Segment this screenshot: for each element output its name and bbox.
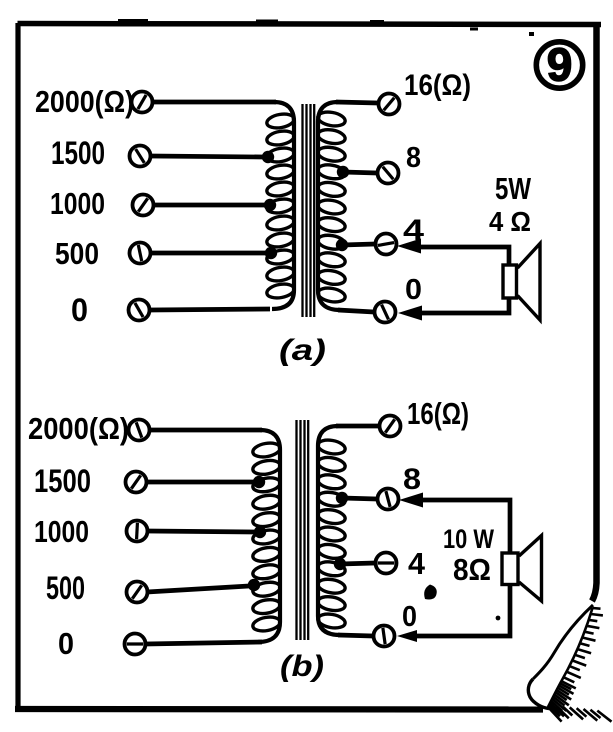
svg-text:2000(Ω): 2000(Ω) — [28, 411, 129, 446]
svg-text:(b): (b) — [280, 650, 324, 683]
wire 2000 terminal to T2 primary top (b) — [149, 428, 262, 433]
terminal 0 ohm secondary (a) — [375, 302, 396, 323]
ink speck near speaker (b) — [496, 616, 501, 621]
svg-text:16(Ω): 16(Ω) — [404, 69, 471, 102]
label 5W speaker rating (a) — [495, 171, 532, 206]
junction dot 4 ohm tap on T2 secondary (b) — [334, 558, 346, 570]
svg-text:10 W: 10 W — [443, 524, 494, 554]
wire 0 ohm terminal to speaker LS1 minus lead (a) — [420, 297, 509, 313]
label 16(Ω) secondary tap (b) — [407, 396, 469, 431]
terminal 8 ohm (a) — [378, 163, 399, 184]
terminal 2000 ohm tap (a) — [132, 92, 153, 113]
wire 1500 terminal to T1 primary tap (a) — [150, 156, 264, 157]
terminal 1500 ohm tap (b) — [126, 472, 147, 493]
svg-text:1500: 1500 — [51, 135, 105, 171]
arrowhead at 8 ohm terminal (b) — [399, 493, 423, 508]
speaker LS2 10W 8 ohm (b) — [502, 536, 542, 602]
speaker LS1 5W 4 ohm (a) — [503, 244, 540, 321]
wire 500 terminal to T1 primary tap (a) — [150, 251, 267, 256]
junction dot 500 tap on T2 primary (b) — [248, 579, 260, 591]
label (b) sub-figure — [280, 650, 324, 683]
arrowhead at 0 ohm terminal (a) — [398, 306, 422, 321]
label 1000 primary tap (a) — [50, 186, 105, 221]
svg-text:0: 0 — [58, 626, 74, 661]
terminal 2000 ohm tap (b) — [129, 420, 150, 441]
transformer T2 primary winding (b) — [252, 430, 281, 642]
transformer T2 secondary winding (b) — [317, 426, 346, 635]
label 2000(Ω) primary tap (a) — [35, 84, 134, 119]
junction dot 1500 tap on T1 primary (a) — [262, 151, 274, 163]
terminal 500 ohm tap (a) — [130, 243, 151, 264]
svg-text:500: 500 — [55, 236, 99, 271]
junction dot 1000 tap on T2 primary (b) — [254, 526, 266, 538]
wire 1000 terminal to T1 primary tap (a) — [153, 203, 266, 208]
label 0 secondary tap (b) — [402, 601, 417, 633]
wire 4 ohm tap to terminal (b) — [340, 563, 375, 564]
label 4Ω speaker impedance (a) — [489, 206, 531, 237]
junction dot 1000 tap on T1 primary (a) — [264, 199, 276, 211]
junction dot 1500 tap on T2 primary (b) — [253, 476, 265, 488]
wire T1 secondary bottom to 0 terminal (a) — [338, 310, 374, 312]
terminal 4 ohm (b) — [376, 553, 397, 574]
label 16(Ω) secondary tap (a) — [404, 69, 471, 102]
terminal 0 ohm tap (a) — [129, 300, 150, 321]
terminal 8 ohm (b) — [378, 489, 399, 510]
label 1000 primary tap (b) — [34, 514, 89, 549]
wire 500 terminal to T2 primary tap (b) — [147, 586, 249, 592]
terminal 16 ohm (b) — [380, 416, 401, 437]
svg-text:0: 0 — [405, 274, 422, 306]
label 8Ω speaker impedance (b) — [453, 552, 491, 587]
junction dot 8 ohm tap on T2 secondary (b) — [336, 492, 348, 504]
label 4 secondary tap (a) — [403, 214, 424, 247]
terminal 0 ohm secondary (b) — [374, 626, 395, 647]
terminal 1500 ohm tap (a) — [130, 146, 151, 167]
transformer T2 core (b) — [297, 420, 309, 640]
wire 0 terminal to T1 primary bottom (a) — [149, 309, 270, 310]
svg-text:8: 8 — [403, 463, 421, 496]
label 0 secondary tap (a) — [405, 274, 422, 306]
wire T1 secondary top to 16 ohm terminal (a) — [336, 102, 378, 103]
label 2000(Ω) primary tap (b) — [28, 411, 129, 446]
terminal 500 ohm tap (b) — [127, 582, 148, 603]
svg-text:2000(Ω): 2000(Ω) — [35, 84, 134, 119]
junction dot 500 tap on T1 primary (a) — [265, 247, 277, 259]
svg-text:1000: 1000 — [50, 186, 105, 221]
wire 1000 terminal to T2 primary tap (b) — [147, 531, 255, 532]
svg-text:500: 500 — [46, 570, 85, 606]
transformer T1 core (a) — [303, 104, 315, 317]
svg-text:16(Ω): 16(Ω) — [407, 396, 469, 431]
svg-text:8: 8 — [406, 142, 421, 174]
wire 8 ohm terminal to speaker LS2 plus lead (b) — [420, 500, 510, 554]
svg-text:4 Ω: 4 Ω — [489, 206, 531, 237]
terminal 16 ohm (a) — [379, 94, 400, 115]
wire T2 secondary bottom to 0 terminal (b) — [338, 635, 373, 636]
svg-text:0: 0 — [402, 601, 417, 633]
wire 8 ohm tap to terminal (b) — [342, 498, 377, 499]
wire 2000 terminal to T1 primary top (a) — [152, 100, 276, 105]
label (a) sub-figure — [279, 334, 326, 367]
wire T2 secondary top to 16 ohm terminal (b) — [336, 424, 379, 429]
transformer T1 secondary winding (a) — [317, 102, 346, 310]
terminal 0 ohm tap (b) — [125, 634, 146, 655]
terminal 1000 ohm tap (b) — [127, 521, 148, 542]
svg-text:9: 9 — [547, 39, 573, 91]
figure number 9 (circled) — [536, 39, 582, 91]
svg-text:4: 4 — [408, 546, 426, 581]
terminal 4 ohm (a) — [376, 234, 397, 255]
svg-text:8Ω: 8Ω — [453, 552, 491, 587]
arrowhead at 4 ohm terminal (a) — [397, 239, 421, 254]
label 1500 primary tap (a) — [51, 135, 105, 171]
label 4 secondary tap (b) — [408, 546, 426, 581]
arrowhead at 0 ohm terminal (b) — [397, 630, 417, 642]
wire 4 ohm terminal to speaker LS1 plus lead (a) — [417, 247, 509, 266]
ink blob near 0 tap (b) — [424, 585, 437, 600]
label 500 primary tap (a) — [55, 236, 99, 271]
label 10W speaker rating (b) — [443, 524, 494, 554]
svg-text:1500: 1500 — [34, 463, 91, 499]
svg-text:5W: 5W — [495, 171, 532, 206]
terminal 1000 ohm tap (a) — [133, 195, 154, 216]
label 8 secondary tap (a) — [406, 142, 421, 174]
wire 4 ohm tap to terminal (a) — [342, 244, 375, 245]
junction dot 4 ohm tap on T1 secondary (a) — [336, 239, 348, 251]
wire 0 ohm terminal to speaker LS2 minus lead (b) — [415, 584, 510, 636]
svg-text:0: 0 — [71, 292, 88, 328]
label 8 secondary tap (b) — [403, 463, 421, 496]
junction dot 8 ohm tap on T1 secondary (a) — [337, 166, 349, 178]
label 0 primary tap (b) — [58, 626, 74, 661]
label 500 primary tap (b) — [46, 570, 85, 606]
svg-text:1000: 1000 — [34, 514, 89, 549]
label 1500 primary tap (b) — [34, 463, 91, 499]
wire 1500 terminal to T2 primary tap (b) — [146, 480, 254, 485]
wire 8 ohm tap to terminal (a) — [343, 172, 377, 173]
label 0 primary tap (a) — [71, 292, 88, 328]
svg-text:(a): (a) — [279, 334, 326, 367]
transformer T1 primary winding (a) — [266, 102, 295, 309]
wire 0 terminal to T2 primary bottom (b) — [145, 642, 262, 644]
